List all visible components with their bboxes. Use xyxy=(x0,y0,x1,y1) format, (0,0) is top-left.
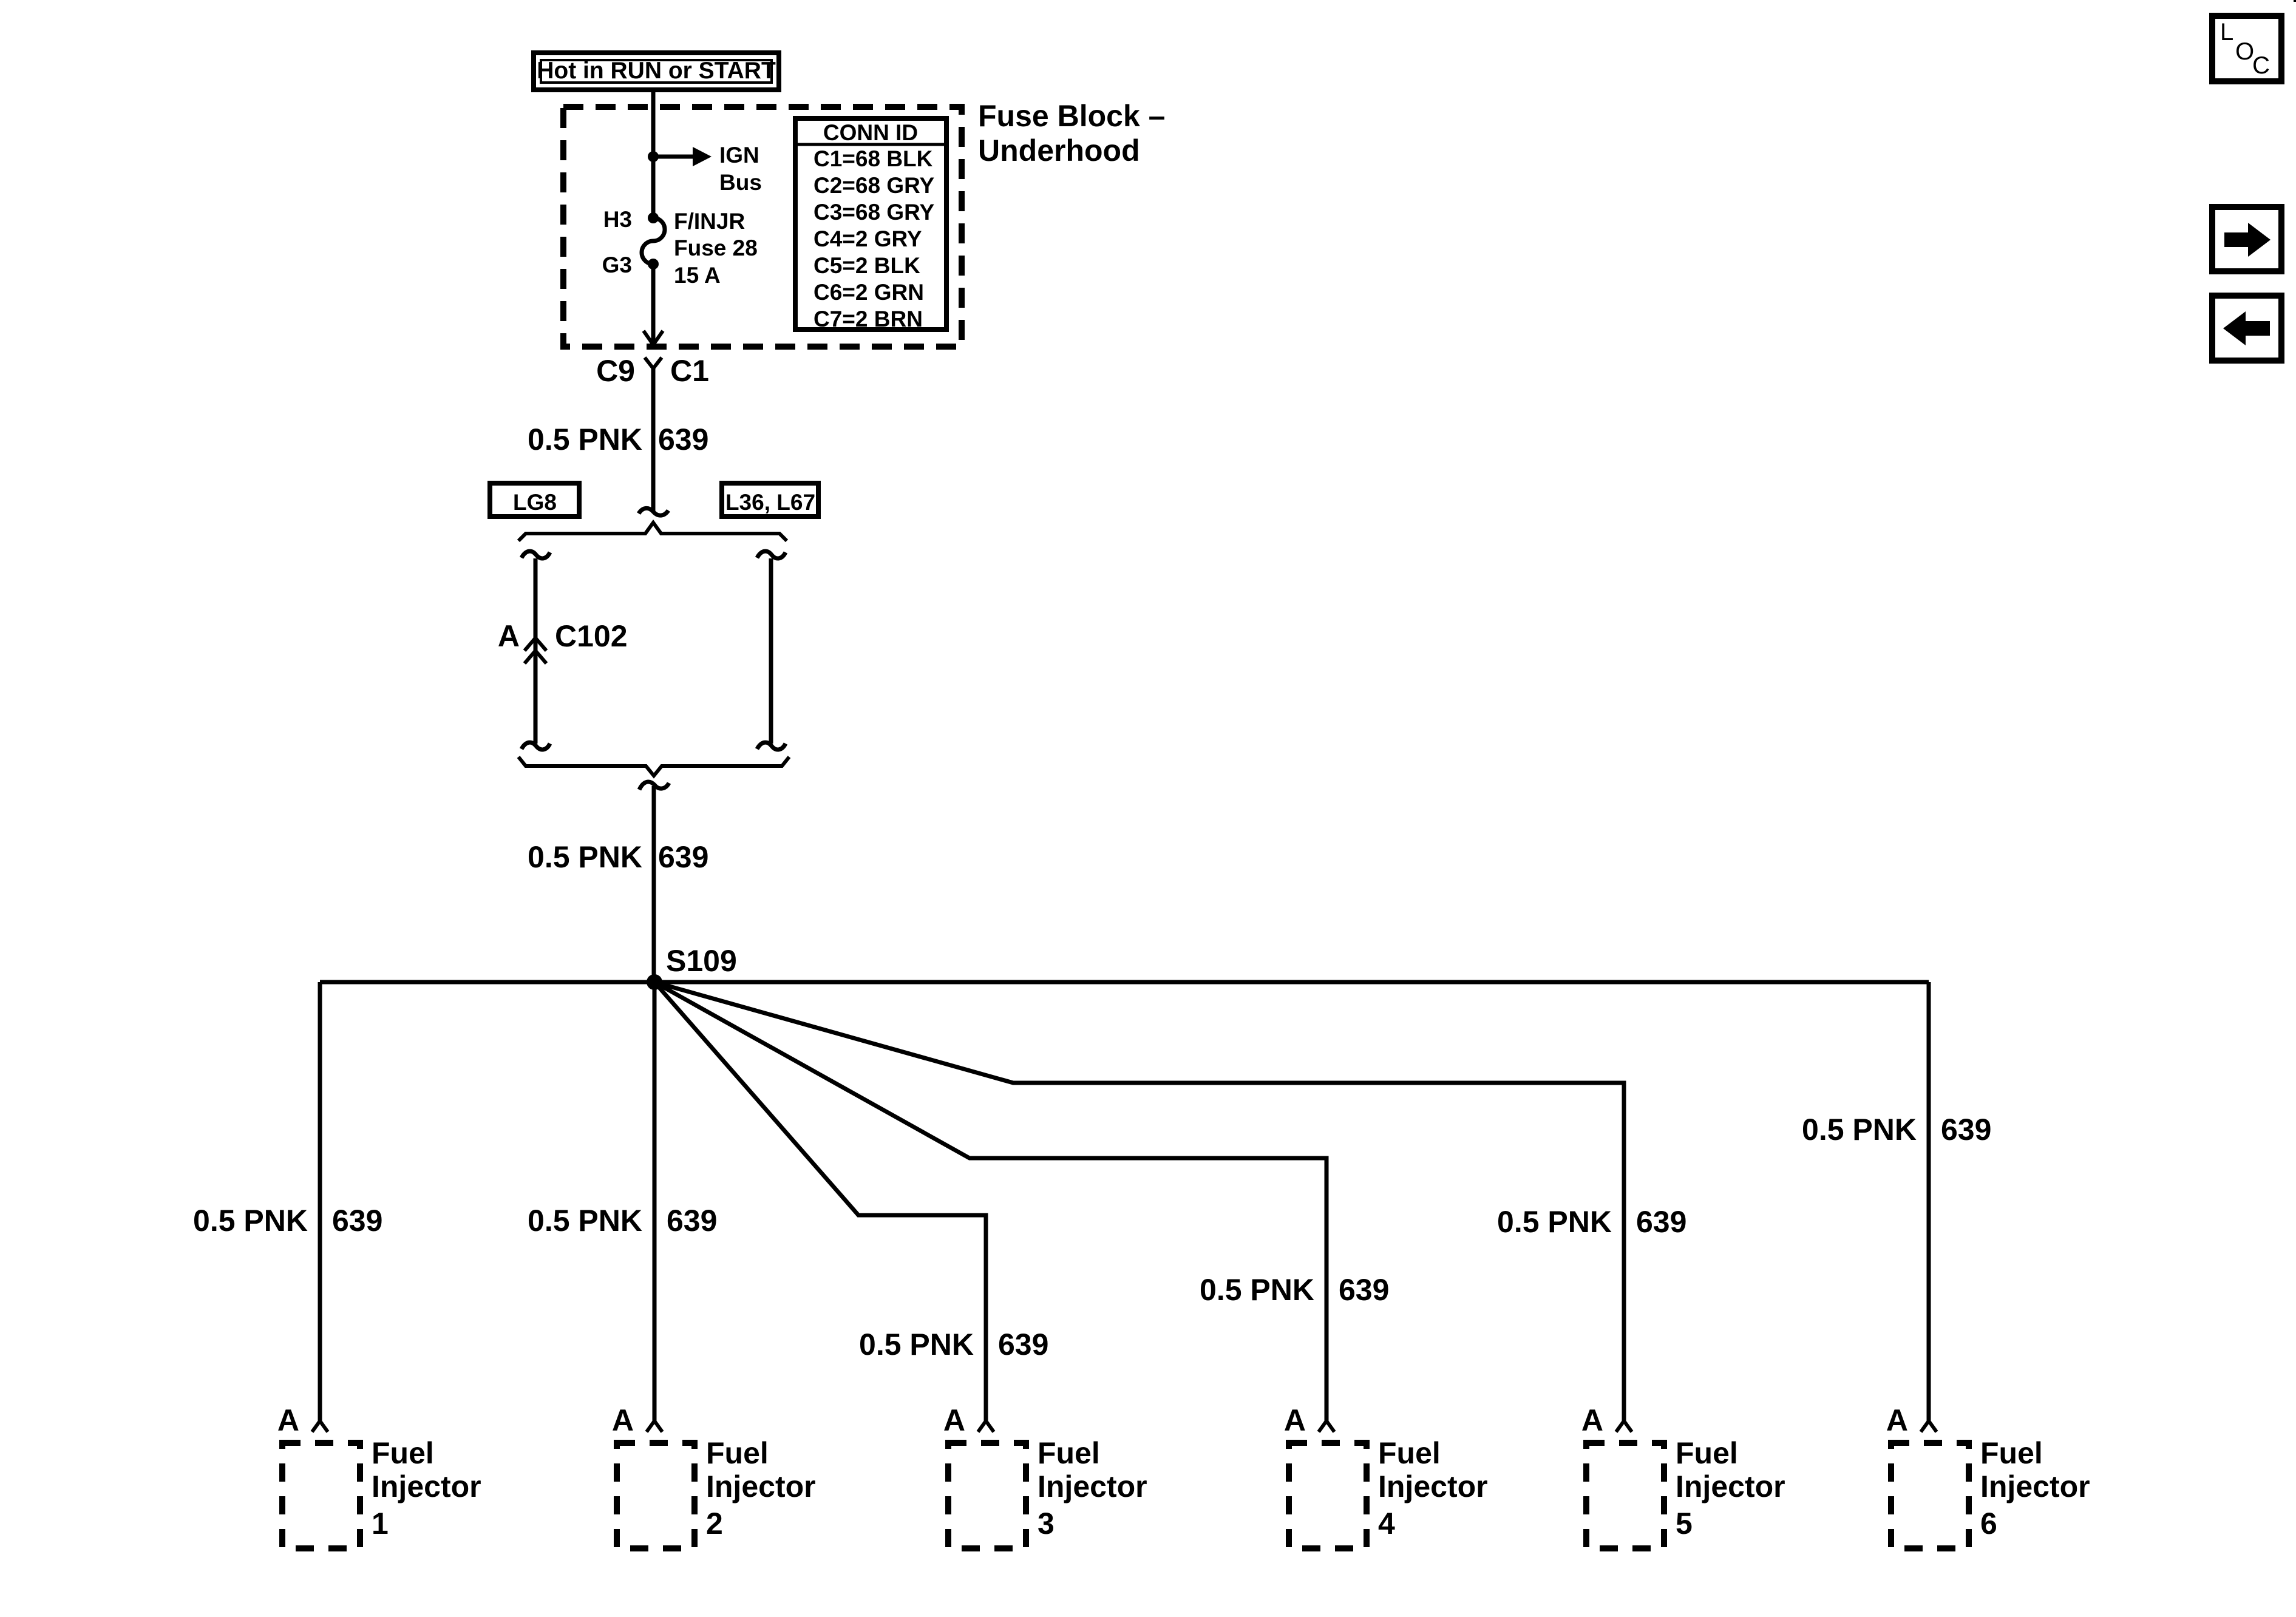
svg-text:L: L xyxy=(2220,19,2233,46)
svg-text:4: 4 xyxy=(1378,1507,1395,1541)
svg-text:639: 639 xyxy=(658,840,708,874)
fuel injector 1 dashed box xyxy=(282,1443,360,1548)
svg-text:G3: G3 xyxy=(602,253,632,277)
option merge brace (bottom) xyxy=(518,757,789,776)
svg-text:C: C xyxy=(2252,52,2270,79)
svg-text:C2=68 GRY: C2=68 GRY xyxy=(813,173,934,198)
svg-text:Injector: Injector xyxy=(1378,1470,1488,1503)
svg-text:2: 2 xyxy=(706,1507,723,1541)
svg-text:C7=2 BRN: C7=2 BRN xyxy=(813,307,923,331)
wire label 0.5 PNK 639 (upper) xyxy=(528,422,708,456)
wire: ignition feed from Hot in RUN into fuse block xyxy=(651,92,656,218)
svg-text:639: 639 xyxy=(998,1327,1048,1361)
splice S109 junction dot xyxy=(647,974,662,990)
svg-text:A: A xyxy=(1886,1403,1908,1437)
svg-text:CONN ID: CONN ID xyxy=(823,120,918,145)
svg-text:Underhood: Underhood xyxy=(978,134,1140,168)
wire label 0.5 PNK 639 (injector 1) xyxy=(193,1204,382,1238)
svg-text:Fuse 28: Fuse 28 xyxy=(674,236,758,260)
wire: branch to fuel injector 1 xyxy=(318,982,322,1421)
option split brace (top) xyxy=(518,523,787,541)
engine option L36, L67 box xyxy=(722,483,818,517)
wire: splice bus horizontal xyxy=(320,980,1929,985)
svg-text:A: A xyxy=(943,1403,965,1437)
svg-text:A: A xyxy=(1581,1403,1603,1437)
svg-text:Injector: Injector xyxy=(1980,1470,2090,1503)
svg-text:IGN: IGN xyxy=(719,143,759,168)
label Fuel Injector 2 xyxy=(706,1436,816,1541)
connector fork pin A (injector 2) xyxy=(647,1421,662,1432)
svg-text:C3=68 GRY: C3=68 GRY xyxy=(813,200,934,225)
LOC navigation box xyxy=(2212,16,2281,81)
svg-text:C4=2 GRY: C4=2 GRY xyxy=(813,226,922,251)
svg-text:639: 639 xyxy=(1941,1113,1991,1147)
page corner mark xyxy=(2294,0,2296,2)
in-line connector hook at option split xyxy=(639,508,668,515)
svg-text:0.5 PNK: 0.5 PNK xyxy=(528,1204,642,1238)
svg-text:639: 639 xyxy=(332,1204,382,1238)
wire: branch to fuel injector 3 xyxy=(654,982,986,1421)
svg-text:Injector: Injector xyxy=(1676,1470,1785,1503)
svg-text:639: 639 xyxy=(658,422,708,456)
connector fork pin A (injector 3) xyxy=(978,1421,994,1432)
CONN ID table xyxy=(793,118,946,331)
nav arrow box (back) xyxy=(2212,296,2281,361)
LG8 option wire (left) with end hooks xyxy=(521,551,550,750)
svg-text:1: 1 xyxy=(372,1507,389,1541)
label Fuel Injector 1 xyxy=(372,1436,481,1541)
svg-text:0.5 PNK: 0.5 PNK xyxy=(1497,1205,1612,1239)
svg-text:H3: H3 xyxy=(603,207,632,232)
svg-text:Fuel: Fuel xyxy=(372,1436,434,1470)
svg-text:639: 639 xyxy=(667,1204,717,1238)
fuel injector 3 dashed box xyxy=(948,1443,1026,1548)
fuel injector 2 dashed box xyxy=(617,1443,695,1548)
nav arrow box (forward) xyxy=(2212,207,2281,271)
label Fuel Injector 5 xyxy=(1676,1436,1785,1541)
svg-text:Fuel: Fuel xyxy=(1980,1436,2043,1470)
svg-text:0.5 PNK: 0.5 PNK xyxy=(1200,1273,1314,1307)
svg-text:Fuel: Fuel xyxy=(1378,1436,1441,1470)
svg-text:Hot in RUN or START: Hot in RUN or START xyxy=(537,58,776,84)
svg-text:A: A xyxy=(612,1403,634,1437)
svg-text:LG8: LG8 xyxy=(513,490,557,515)
wire label 0.5 PNK 639 (injector 3) xyxy=(859,1327,1048,1361)
svg-text:C9: C9 xyxy=(596,354,635,388)
fuse value label F/INJR Fuse 28 15 A xyxy=(674,209,758,288)
fuel injector 5 dashed box xyxy=(1586,1443,1664,1548)
svg-text:Injector: Injector xyxy=(706,1470,816,1503)
svg-text:Fuel: Fuel xyxy=(706,1436,769,1470)
svg-text:C5=2 BLK: C5=2 BLK xyxy=(813,253,920,278)
svg-text:0.5 PNK: 0.5 PNK xyxy=(528,422,642,456)
node: IGN Bus tap xyxy=(648,151,659,162)
power source label box "Hot in RUN or START" xyxy=(534,53,779,90)
svg-text:O: O xyxy=(2235,38,2254,65)
wire: branch to fuel injector 4 xyxy=(654,982,1326,1421)
svg-text:Fuel: Fuel xyxy=(1676,1436,1738,1470)
svg-text:5: 5 xyxy=(1676,1507,1693,1541)
svg-text:Injector: Injector xyxy=(1038,1470,1147,1503)
wire: branch to fuel injector 5 xyxy=(654,982,1624,1421)
label: Fuse Block - Underhood xyxy=(978,99,1165,168)
svg-text:0.5 PNK: 0.5 PNK xyxy=(1802,1113,1917,1147)
connector fork pin A (injector 6) xyxy=(1921,1421,1937,1432)
svg-text:L36, L67: L36, L67 xyxy=(725,490,815,515)
svg-text:C6=2 GRN: C6=2 GRN xyxy=(813,280,924,305)
svg-text:Fuse Block –: Fuse Block – xyxy=(978,99,1165,133)
wire: 0.5 PNK 639 from C102 merge down to S109 xyxy=(652,786,656,982)
fuse block dashed outline xyxy=(563,107,962,347)
fuel injector 4 dashed box xyxy=(1289,1443,1367,1548)
label Fuel Injector 6 xyxy=(1980,1436,2090,1541)
in-line connector hook below merge xyxy=(639,782,669,790)
label Fuel Injector 3 xyxy=(1038,1436,1147,1541)
connector C102 pass-through chevrons xyxy=(525,638,546,663)
svg-text:0.5 PNK: 0.5 PNK xyxy=(193,1204,308,1238)
svg-text:639: 639 xyxy=(1636,1205,1686,1239)
svg-text:C1=68 BLK: C1=68 BLK xyxy=(813,146,933,171)
svg-text:C102: C102 xyxy=(555,619,628,653)
svg-text:C1: C1 xyxy=(670,354,709,388)
svg-text:639: 639 xyxy=(1339,1273,1389,1307)
svg-text:6: 6 xyxy=(1980,1507,1997,1541)
svg-text:Injector: Injector xyxy=(372,1470,481,1503)
svg-text:15 A: 15 A xyxy=(674,263,721,288)
svg-text:0.5 PNK: 0.5 PNK xyxy=(859,1327,974,1361)
label Fuel Injector 4 xyxy=(1378,1436,1488,1541)
IGN Bus arrow xyxy=(653,147,712,166)
label: IGN Bus xyxy=(719,143,762,195)
svg-text:A: A xyxy=(277,1403,299,1437)
svg-text:3: 3 xyxy=(1038,1507,1055,1541)
fuse F/INJR Fuse 28 15A (terminals H3-G3) xyxy=(642,212,665,269)
connector fork pin A (injector 4) xyxy=(1319,1421,1334,1432)
wire: branch to fuel injector 6 xyxy=(1927,982,1931,1421)
wire label 0.5 PNK 639 (injector 4) xyxy=(1200,1273,1389,1307)
svg-text:Bus: Bus xyxy=(719,170,762,195)
svg-text:0.5 PNK: 0.5 PNK xyxy=(528,840,642,874)
fuel injector 6 dashed box xyxy=(1891,1443,1969,1548)
wire: fuse output down to connector C1 xyxy=(644,264,663,345)
wire label 0.5 PNK 639 (above S109) xyxy=(528,840,708,874)
svg-text:A: A xyxy=(1284,1403,1306,1437)
wire label 0.5 PNK 639 (injector 2) xyxy=(528,1204,717,1238)
wire label 0.5 PNK 639 (injector 6) xyxy=(1802,1113,1991,1147)
svg-text:S109: S109 xyxy=(666,944,737,978)
wire label 0.5 PNK 639 (injector 5) xyxy=(1497,1205,1686,1239)
svg-text:F/INJR: F/INJR xyxy=(674,209,745,234)
L36/L67 option wire (right) with end hooks xyxy=(757,551,786,750)
engine option LG8 box xyxy=(490,483,579,517)
svg-text:A: A xyxy=(498,619,520,653)
connector C9/C1 fork symbol xyxy=(645,358,662,368)
wire: 0.5 PNK 639 from C1 to option split xyxy=(651,368,656,512)
connector fork pin A (injector 1) xyxy=(312,1421,328,1432)
svg-text:Fuel: Fuel xyxy=(1038,1436,1100,1470)
connector fork pin A (injector 5) xyxy=(1616,1421,1632,1432)
wire: branch to fuel injector 2 xyxy=(653,982,657,1421)
